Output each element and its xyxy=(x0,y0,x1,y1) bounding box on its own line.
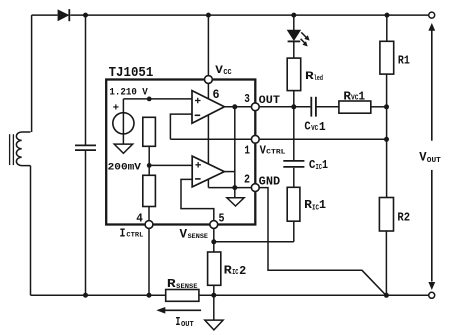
svg-text:6: 6 xyxy=(213,88,220,102)
wire op2 minus to pin5 xyxy=(181,179,214,224)
wire op2 output xyxy=(224,171,235,173)
capacitor CVC1 xyxy=(310,97,312,117)
svg-text:C: C xyxy=(304,121,310,134)
pin 4 circle xyxy=(145,221,153,229)
node Vcc top junction xyxy=(206,13,211,18)
wire pin4 down xyxy=(148,228,150,295)
wire pin5 Vsense xyxy=(213,228,215,252)
svg-text:4: 4 xyxy=(136,212,143,226)
node LED top junction xyxy=(291,13,296,18)
svg-text:2: 2 xyxy=(244,173,250,186)
svg-text:V: V xyxy=(180,226,188,241)
svg-text:OUT: OUT xyxy=(427,157,441,165)
diode D1 xyxy=(58,10,68,20)
wire Vcc drop xyxy=(207,15,209,76)
svg-text:V: V xyxy=(419,150,426,165)
pin 3 circle xyxy=(251,103,259,111)
resistor RSENSE xyxy=(166,290,199,302)
wire output bus down xyxy=(234,107,236,188)
LED arrows xyxy=(301,32,306,37)
svg-text:TJ1051: TJ1051 xyxy=(109,65,154,81)
wire divider to pin4 xyxy=(148,207,150,225)
svg-text:1: 1 xyxy=(322,159,328,172)
capacitor C-filter xyxy=(75,144,96,146)
svg-text:3: 3 xyxy=(244,93,250,106)
svg-text:VC: VC xyxy=(311,125,318,133)
svg-text:I: I xyxy=(120,227,126,241)
pin 2 circle xyxy=(251,184,259,192)
svg-text:OUT: OUT xyxy=(181,321,194,329)
source V1 1.210V xyxy=(122,99,124,144)
wire op1 minus feedback xyxy=(170,114,192,139)
Iout arrow xyxy=(160,309,201,311)
wire pin2 gnd external xyxy=(259,188,386,296)
wire op1 output xyxy=(224,106,255,108)
node R2 bottom junction xyxy=(384,293,389,298)
svg-text:SENSE: SENSE xyxy=(188,233,209,240)
svg-text:I: I xyxy=(175,315,180,329)
op-amp A1 xyxy=(192,91,224,124)
svg-text:+: + xyxy=(113,104,120,115)
svg-text:SENSE: SENSE xyxy=(176,283,197,290)
svg-text:2: 2 xyxy=(239,264,246,278)
svg-text:1: 1 xyxy=(319,121,326,134)
Vout dimension line xyxy=(431,29,433,141)
transformer core xyxy=(9,134,11,165)
capacitor CIC1 xyxy=(283,160,304,162)
node diode-cap junction xyxy=(83,13,88,18)
IC U1 box TJ1051 xyxy=(106,80,255,225)
resistor RIC2 xyxy=(208,252,221,285)
ground (internal) xyxy=(234,188,236,198)
wire gnd internal xyxy=(208,187,255,189)
wire R1 divider column xyxy=(386,15,388,41)
wire Vctrl external xyxy=(259,138,386,140)
wire filter cap branch xyxy=(85,15,87,145)
svg-text:200mV: 200mV xyxy=(108,162,142,174)
node pin4 bottom junction xyxy=(147,293,152,298)
node R1 top junction xyxy=(385,13,390,18)
svg-text:GND: GND xyxy=(259,176,281,189)
wire OUT line xyxy=(259,106,310,108)
pin 5 circle xyxy=(210,221,218,229)
op-amp A2 xyxy=(192,156,224,187)
wire top rail xyxy=(32,14,58,16)
svg-text:R: R xyxy=(304,199,312,212)
svg-text:R2: R2 xyxy=(397,212,410,225)
svg-text:V: V xyxy=(260,144,266,157)
svg-text:CC: CC xyxy=(223,69,231,77)
svg-text:IC: IC xyxy=(312,205,319,213)
svg-text:IC: IC xyxy=(232,269,238,277)
wire transformer bottom to rail xyxy=(30,166,32,296)
svg-text:1: 1 xyxy=(319,199,326,212)
svg-text:CTRL: CTRL xyxy=(266,149,286,156)
ground (ref source) xyxy=(114,144,133,153)
ground (output) xyxy=(213,295,215,320)
wire ref 1.210V node xyxy=(123,98,192,100)
svg-text:5: 5 xyxy=(219,212,225,226)
resistor RVC1 xyxy=(339,101,371,113)
pin 1 circle xyxy=(251,135,259,143)
terminal Vout- xyxy=(429,292,435,298)
svg-text:V: V xyxy=(215,65,223,77)
svg-text:R: R xyxy=(343,90,351,103)
pin Vcc circle xyxy=(205,76,213,84)
resistor R1 xyxy=(380,41,394,74)
wire 200mV node xyxy=(148,146,150,175)
LED D2 xyxy=(293,15,295,30)
resistor Rled xyxy=(287,58,301,91)
svg-text:OUT: OUT xyxy=(259,95,281,107)
svg-text:1.210 V: 1.210 V xyxy=(109,87,148,99)
node cap bottom junction xyxy=(83,293,88,298)
wire Vcc internal supply line xyxy=(207,83,209,187)
resistor ref divider top xyxy=(143,117,156,146)
svg-text:1: 1 xyxy=(359,90,366,103)
svg-text:R1: R1 xyxy=(398,54,410,68)
resistor R2 xyxy=(379,198,393,232)
transformer L1 winding xyxy=(16,132,30,166)
wire Vctrl internal xyxy=(170,138,255,140)
wire bottom rail xyxy=(31,294,166,296)
svg-text:1: 1 xyxy=(244,144,250,157)
svg-text:VC: VC xyxy=(351,95,359,103)
svg-text:CTRL: CTRL xyxy=(126,232,143,239)
resistor ref divider bottom xyxy=(143,175,156,206)
wire left drop to transformer xyxy=(31,15,33,132)
svg-text:led: led xyxy=(314,75,323,83)
node Rsense-gnd junction xyxy=(211,293,216,298)
terminal Vout+ xyxy=(429,12,435,18)
wire OUT to CIC1 branch xyxy=(293,107,295,160)
resistor RIC1 xyxy=(287,187,300,221)
